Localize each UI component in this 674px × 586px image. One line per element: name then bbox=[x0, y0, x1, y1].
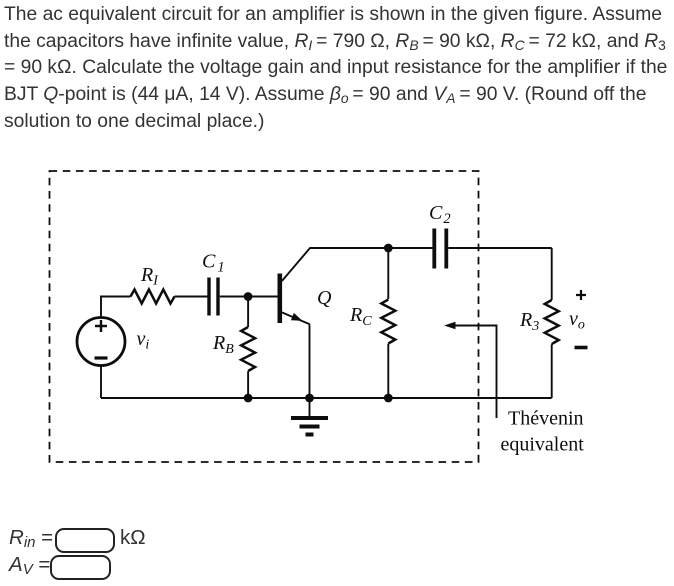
wire source bottom bbox=[100, 366, 102, 399]
capacitor C1 bbox=[209, 278, 218, 316]
wire collector top rail bbox=[310, 247, 433, 249]
svg-text:C2: C2 bbox=[429, 202, 451, 227]
svg-text:RI: RI bbox=[140, 264, 159, 289]
svg-text:Thévenin: Thévenin bbox=[508, 408, 584, 430]
wire RI to C1 bbox=[175, 296, 208, 298]
thevenin pointer arrow bbox=[444, 322, 497, 418]
problem paragraph bbox=[4, 2, 674, 135]
source vi bbox=[77, 318, 125, 366]
dashed enclosure box bbox=[50, 171, 479, 462]
transistor Q bbox=[280, 248, 310, 324]
svg-text:RC: RC bbox=[349, 304, 372, 329]
wire emitter down bbox=[309, 324, 311, 398]
wire C1 to base node bbox=[220, 296, 278, 298]
capacitor C2 bbox=[434, 229, 446, 269]
answer row Av bbox=[9, 553, 50, 577]
svg-text:vo: vo bbox=[569, 308, 585, 333]
answer input box Rin bbox=[55, 528, 115, 553]
node emitter ground junction bbox=[305, 394, 314, 403]
labels bbox=[137, 202, 585, 357]
node RC top junction bbox=[384, 244, 393, 253]
resistor RI bbox=[131, 290, 175, 304]
resistor RB bbox=[241, 297, 255, 399]
svg-text:vi: vi bbox=[137, 328, 150, 353]
node RC bottom junction bbox=[384, 394, 393, 403]
vo plus sign bbox=[576, 290, 586, 300]
wire C2 to R3 bbox=[448, 247, 552, 249]
node base junction bbox=[244, 292, 253, 301]
resistor R3 bbox=[545, 248, 559, 398]
label Thevenin equivalent bbox=[501, 408, 585, 456]
svg-text:RB: RB bbox=[212, 332, 234, 357]
unit kOhm bbox=[120, 526, 146, 550]
svg-text:equivalent: equivalent bbox=[501, 433, 585, 455]
vo minus sign bbox=[575, 346, 588, 350]
node RB bottom junction bbox=[244, 394, 253, 403]
svg-text:C1: C1 bbox=[202, 251, 225, 276]
svg-text:Q: Q bbox=[317, 287, 332, 309]
resistor RC bbox=[381, 248, 395, 398]
svg-text:R3: R3 bbox=[519, 309, 539, 334]
wire source top bbox=[101, 297, 131, 318]
answer input box Av bbox=[50, 555, 111, 580]
ground bbox=[291, 398, 328, 435]
wire bottom rail bbox=[101, 397, 552, 399]
answer row Rin bbox=[9, 526, 53, 550]
